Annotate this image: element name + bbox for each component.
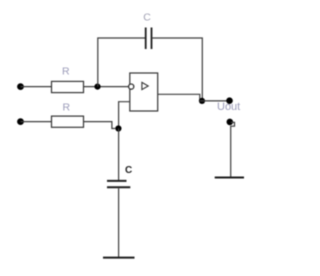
- junction node OUT: [199, 98, 205, 104]
- node IN2 (lower input terminal): [17, 118, 24, 125]
- node Uout (upper output terminal): [226, 97, 233, 104]
- wire R2 to junction node B (with jog): [84, 122, 116, 129]
- resistor R1: [52, 81, 84, 92]
- label R (R2): [63, 101, 71, 113]
- wire op-amp output to junction node OUT: [158, 94, 200, 101]
- ground (right): [215, 177, 244, 179]
- svg-text:R: R: [62, 66, 70, 78]
- wire capacitor C right and down to output node: [152, 38, 202, 101]
- wire capacitor C2 to ground: [118, 188, 120, 257]
- node IN1 (upper input terminal): [17, 83, 24, 90]
- wire lower output terminal to ground (jog): [231, 122, 235, 176]
- capacitor C (feedback) plates: [146, 28, 152, 50]
- wire IN1 to R1: [21, 86, 52, 88]
- junction node B (non-inverting input node): [115, 125, 121, 131]
- wire R1 to op-amp inverting input: [84, 86, 129, 88]
- op-amp U1 body: [130, 73, 158, 111]
- label C (feedback capacitor): [143, 12, 151, 24]
- capacitor C2 plates: [107, 181, 130, 187]
- wire node B down to capacitor C2: [118, 129, 120, 181]
- wire node OUT to Uout terminal: [200, 100, 230, 102]
- wire op-amp lower input to junction node B: [119, 102, 130, 126]
- wire feedback: node A up and right to capacitor C: [98, 38, 145, 87]
- label C (C2): [125, 165, 132, 176]
- label Uout: [217, 101, 240, 113]
- op-amp U1 inverting input circle: [129, 84, 134, 89]
- svg-text:R: R: [63, 101, 71, 113]
- resistor R2: [52, 116, 84, 127]
- ground (bottom): [103, 257, 135, 259]
- svg-text:Uout: Uout: [217, 101, 240, 113]
- svg-text:C: C: [125, 165, 132, 176]
- junction node A (inverting input node): [94, 84, 100, 90]
- label R (R1): [62, 66, 70, 78]
- svg-text:C: C: [143, 12, 151, 24]
- wire IN2 to R2: [21, 121, 52, 123]
- op-amp U1 triangle symbol: [142, 82, 148, 89]
- node lower output terminal: [227, 119, 234, 126]
